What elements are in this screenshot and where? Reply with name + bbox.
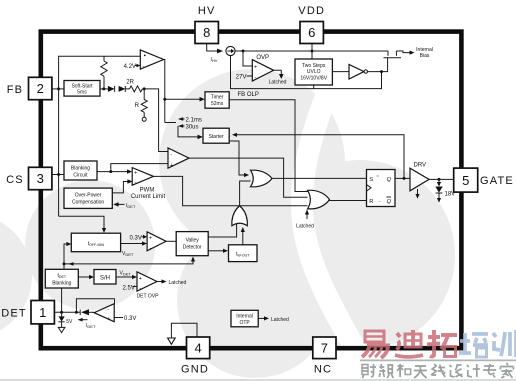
node FB junction bbox=[57, 87, 60, 90]
svg-text:27V: 27V bbox=[236, 74, 247, 80]
svg-text:Blanking: Blanking bbox=[71, 165, 90, 171]
arrow below DRV bbox=[415, 189, 419, 199]
block Internal OTP bbox=[231, 310, 258, 327]
svg-text:IHV: IHV bbox=[211, 57, 218, 63]
wire UVLO bottom stub bbox=[313, 85, 315, 89]
svg-text:...: ... bbox=[378, 198, 382, 203]
node zener junction bbox=[60, 311, 63, 314]
pin 8 (HV) bbox=[195, 22, 218, 44]
node buffer output junction bbox=[380, 70, 383, 73]
svg-text:HV: HV bbox=[198, 5, 216, 17]
svg-text:Bias: Bias bbox=[420, 53, 430, 59]
wire Blanking output to PWM comparator plus bbox=[97, 169, 132, 173]
watermark char tuo (red) bbox=[427, 330, 457, 357]
label 2.1ms with arrow bbox=[178, 117, 202, 123]
buffer U-bias (inverter) bbox=[349, 64, 367, 79]
svg-text:+: + bbox=[149, 236, 152, 242]
current source IHV (circle with arrow) bbox=[226, 46, 235, 55]
label PWM Current Limit bbox=[131, 188, 166, 201]
wire Latched into OR2 with arrow bbox=[305, 210, 309, 220]
svg-text:Over-Power: Over-Power bbox=[75, 193, 102, 199]
char he bbox=[397, 364, 411, 377]
svg-text:4: 4 bbox=[194, 340, 201, 355]
wire VDD rail bbox=[235, 50, 388, 52]
wire blanking node to gate comparator plus bbox=[111, 164, 168, 172]
wire Valley Detector to tW-OUT with arrow bbox=[208, 249, 228, 253]
watermark char xun (blue) bbox=[493, 330, 516, 357]
node gate zener junction bbox=[438, 178, 441, 181]
svg-text:3: 3 bbox=[37, 171, 44, 186]
svg-text:Latched: Latched bbox=[296, 223, 314, 229]
svg-text:+: + bbox=[254, 64, 257, 70]
char jia bbox=[500, 363, 513, 378]
svg-text:30us: 30us bbox=[186, 124, 199, 130]
svg-text:GATE: GATE bbox=[480, 175, 514, 187]
char ji bbox=[467, 364, 480, 377]
svg-text:5: 5 bbox=[462, 173, 469, 188]
node soft-start/resistor junction bbox=[102, 87, 105, 90]
op-amp OVP comparator bbox=[252, 60, 273, 81]
block S/H bbox=[94, 270, 116, 285]
wire OR3 output to OR1 bottom input bbox=[240, 181, 251, 208]
pin 4 (GND) bbox=[187, 337, 210, 359]
wire left input into tOFF with arrow bbox=[64, 242, 71, 264]
svg-text:2: 2 bbox=[37, 81, 44, 96]
op-amp FB OLP comparator (4.2V) bbox=[140, 50, 163, 69]
svg-text:6: 6 bbox=[308, 25, 315, 40]
svg-text:-: - bbox=[150, 245, 152, 251]
svg-text:R: R bbox=[369, 199, 373, 205]
diode DET (points left) bbox=[80, 309, 94, 315]
svg-text:7: 7 bbox=[321, 340, 328, 355]
svg-text:-: - bbox=[170, 152, 172, 158]
svg-text:Timer: Timer bbox=[211, 95, 224, 101]
wire 2.5V to DET OVP minus bbox=[133, 286, 138, 288]
svg-text:Internal: Internal bbox=[416, 47, 433, 53]
op-amp gate PWM comparator bbox=[168, 148, 189, 169]
wire buffer output to switch gate bbox=[368, 58, 388, 72]
svg-text:FB: FB bbox=[7, 84, 23, 96]
char she2 bbox=[450, 365, 463, 377]
svg-text:16V/10V/8V: 16V/10V/8V bbox=[300, 76, 327, 82]
node CS junction bbox=[57, 173, 60, 176]
svg-text:+: + bbox=[107, 317, 110, 323]
wire IDET comparator feedback loop bbox=[76, 299, 114, 313]
op-amp DET OVP comparator bbox=[137, 272, 157, 292]
node Q feedback junction bbox=[403, 177, 406, 180]
svg-text:Detector: Detector bbox=[183, 245, 202, 251]
svg-text:1: 1 bbox=[39, 305, 46, 320]
wire OR1 output to latch S bbox=[272, 177, 367, 179]
block tDET Blanking bbox=[45, 269, 78, 288]
watermark char yi (red) bbox=[362, 331, 388, 358]
svg-text:52ms: 52ms bbox=[211, 101, 224, 107]
svg-text:-: - bbox=[108, 306, 110, 312]
block tOFF-MIN bbox=[71, 233, 120, 252]
char pin bbox=[379, 364, 393, 378]
watermark underline bbox=[360, 359, 516, 361]
svg-text:DET: DET bbox=[1, 307, 27, 319]
svg-text:-: - bbox=[135, 180, 137, 186]
wire FB OLP line from Timer to OR2 bbox=[229, 100, 307, 192]
node demag junction bbox=[63, 262, 66, 265]
wire PWM comparator output to OR2 bbox=[154, 176, 308, 205]
wire S/H to DET OVP plus with arrow bbox=[116, 275, 137, 279]
wire switch to Internal Bias bbox=[396, 51, 409, 53]
wire 0.3V arrow to valley comparator plus bbox=[142, 235, 148, 239]
svg-text:Latched: Latched bbox=[269, 80, 287, 86]
wire DRV output to GATE pin bbox=[429, 178, 454, 180]
zener 5V to ground bbox=[58, 312, 65, 332]
char xian bbox=[431, 364, 445, 377]
svg-text:GND: GND bbox=[181, 363, 209, 375]
op-amp valley comparator bbox=[147, 232, 166, 252]
svg-text:S/H: S/H bbox=[100, 275, 110, 281]
wire tDET Blanking to S/H with arrow bbox=[78, 275, 94, 279]
svg-text:Latched: Latched bbox=[169, 280, 187, 286]
wire blanking chain vertical bbox=[63, 264, 65, 269]
svg-text:VDD: VDD bbox=[298, 5, 325, 17]
block Blanking Circuit bbox=[64, 161, 97, 180]
wire OR2 output to latch R bbox=[330, 200, 367, 202]
pin 1 (DET) bbox=[31, 301, 54, 324]
watermark char di (red) bbox=[395, 330, 423, 357]
or-gate OR1 bbox=[251, 170, 273, 187]
wire elbow under OLP output bbox=[165, 122, 176, 124]
pin 7 (NC) bbox=[313, 337, 336, 359]
node OLP output to timer junction bbox=[163, 98, 166, 101]
pin 2 (FB) bbox=[29, 77, 52, 99]
svg-text:8: 8 bbox=[203, 25, 210, 40]
block tW-OUT bbox=[229, 245, 258, 262]
wire OLP comparator output down bbox=[164, 60, 165, 123]
svg-text:Two Steps: Two Steps bbox=[302, 63, 326, 69]
svg-text:S: S bbox=[369, 177, 373, 183]
pin 3 (CS) bbox=[29, 167, 52, 189]
wire to Timer with arrow bbox=[165, 97, 205, 102]
wire Over-Power to PWM comparator minus bbox=[112, 179, 132, 193]
wire to Starter with arrow bbox=[178, 126, 203, 139]
node junction on VDD rail (pin 6) bbox=[311, 50, 314, 53]
flip-flop SR latch U-latch bbox=[367, 170, 396, 207]
wire HV pin to current source bbox=[207, 44, 217, 52]
char she bbox=[362, 364, 376, 378]
IC boundary frame bbox=[41, 32, 462, 349]
svg-text:VDET: VDET bbox=[120, 270, 132, 276]
svg-text:+: + bbox=[170, 163, 173, 169]
svg-text:IDET: IDET bbox=[86, 323, 96, 329]
svg-text:IDET: IDET bbox=[126, 203, 136, 209]
resistor R (vertical) bbox=[141, 89, 147, 117]
wire 0.3V to IDET comparator bbox=[114, 317, 123, 319]
op-amp PWM current limit comparator bbox=[132, 168, 153, 186]
diode D1 bbox=[108, 86, 115, 92]
zener 18V to ground bbox=[436, 179, 443, 202]
svg-text:DET OVP: DET OVP bbox=[137, 293, 160, 299]
wire CS chain down to tOFF box top with arrow bbox=[59, 216, 107, 233]
wire DET OVP output to Latched bbox=[157, 279, 167, 283]
svg-text:Circuit: Circuit bbox=[73, 172, 88, 178]
svg-text:Starter: Starter bbox=[209, 134, 224, 140]
watermark gray tagline row bbox=[362, 363, 513, 378]
wire valley detector top to OR3 left input bbox=[208, 224, 236, 238]
node junction on VDD rail (OVP tap) bbox=[242, 50, 245, 53]
svg-text:Q: Q bbox=[387, 177, 392, 183]
or-gate OR2 bbox=[308, 190, 330, 209]
svg-text:0.3V: 0.3V bbox=[130, 235, 142, 241]
resistor 2R (horizontal) bbox=[125, 86, 144, 92]
or-gate OR3 (vertical) bbox=[232, 206, 247, 226]
wire 4.2V arrow to comparator bbox=[135, 64, 141, 68]
svg-text:NC: NC bbox=[314, 363, 332, 375]
svg-text:2.1ms: 2.1ms bbox=[186, 117, 202, 123]
wire tOFF output to valley comparator bbox=[121, 241, 147, 245]
svg-text:Q: Q bbox=[387, 199, 392, 205]
wire UVLO to buffer bbox=[332, 71, 349, 73]
svg-text:OVP: OVP bbox=[256, 55, 269, 61]
wire Soft-Start output bbox=[100, 88, 108, 90]
node divider junction bbox=[143, 87, 146, 90]
wire tW-OUT to OR3 right input with arrow bbox=[241, 227, 245, 245]
wire 27V to OVP - input bbox=[247, 75, 253, 77]
block Two Steps UVLO bbox=[295, 59, 332, 85]
driver DRV bbox=[410, 168, 429, 191]
svg-text:+: + bbox=[139, 276, 142, 282]
svg-text:OTP: OTP bbox=[239, 320, 250, 326]
wire gate comparator output to OR2 bbox=[189, 158, 308, 197]
svg-text:5V: 5V bbox=[66, 319, 73, 325]
pin 5 (GATE) bbox=[454, 168, 478, 192]
wire pin6 down to UVLO bbox=[311, 44, 313, 60]
svg-text:PWM: PWM bbox=[140, 188, 155, 194]
terminal circle under R bbox=[142, 117, 146, 121]
wire CS pin to Blanking Circuit bbox=[52, 174, 64, 176]
svg-text:5ms: 5ms bbox=[77, 90, 87, 96]
wire FB sense vertical (FB node to comparator and down to CS chain) bbox=[59, 56, 141, 216]
block Over-Power Compensation bbox=[64, 188, 112, 208]
label 30us with arrow bbox=[178, 124, 199, 130]
wire OVP output to Latched bbox=[274, 70, 282, 74]
svg-text:Internal: Internal bbox=[236, 313, 253, 319]
node IDET junction bbox=[75, 311, 78, 314]
pin 6 (VDD) bbox=[300, 22, 323, 44]
svg-text:Blanking: Blanking bbox=[52, 281, 71, 287]
wire blanking down to DET line bbox=[61, 288, 63, 312]
watermark char pei (blue) bbox=[459, 333, 488, 357]
label Internal Bias bbox=[416, 47, 433, 59]
svg-text:R: R bbox=[135, 103, 140, 109]
diode D2 bbox=[119, 86, 126, 92]
svg-text:DRV: DRV bbox=[414, 162, 427, 168]
svg-text:FB OLP: FB OLP bbox=[238, 92, 259, 98]
svg-text:-: - bbox=[139, 286, 141, 292]
svg-text:4.2V: 4.2V bbox=[124, 64, 136, 70]
char tian bbox=[414, 366, 427, 378]
svg-text:0.3V: 0.3V bbox=[124, 316, 136, 322]
svg-text:UVLO: UVLO bbox=[307, 69, 321, 75]
svg-text:Latched: Latched bbox=[271, 317, 289, 323]
svg-text:+: + bbox=[134, 171, 137, 177]
svg-text:2R: 2R bbox=[126, 79, 134, 85]
block Valley Detector bbox=[176, 232, 208, 256]
wire FB pin to Soft-Start bbox=[52, 88, 64, 90]
block Starter bbox=[203, 128, 229, 143]
block Soft-Start 5ms bbox=[64, 81, 100, 97]
wire divider to PWM comparator minus bbox=[144, 89, 168, 152]
switch internal-bias (MOS style) bbox=[384, 51, 402, 58]
svg-text:Compensation: Compensation bbox=[72, 200, 104, 206]
svg-text:Valley: Valley bbox=[186, 238, 200, 244]
svg-text:''': ''' bbox=[377, 175, 380, 180]
wire Starter to OR1 top input bbox=[229, 141, 249, 177]
node blanking junction bbox=[109, 170, 112, 173]
wire long demag line to valley detector bottom bbox=[64, 257, 195, 266]
wire DET pin line bbox=[54, 311, 80, 313]
wire latch Q to DRV bbox=[395, 177, 410, 179]
wire valley comparator to Valley Detector bbox=[166, 240, 176, 242]
wire startup rail from IHV to buffer node bbox=[231, 56, 382, 89]
wire Q feedback to Starter bbox=[232, 133, 404, 179]
op-amp IDET comparator (points left) bbox=[94, 304, 114, 323]
svg-text:Current Limit: Current Limit bbox=[131, 194, 166, 200]
label IDET with arrow bbox=[78, 318, 96, 329]
block Timer 52ms bbox=[205, 92, 229, 108]
wire IDET into Over-Power with arrow bbox=[113, 202, 124, 206]
char zhuan bbox=[483, 364, 496, 378]
resistor pull-up (vertical) bbox=[101, 56, 107, 89]
wire OVP + input bbox=[243, 51, 252, 66]
svg-text:-: - bbox=[255, 75, 257, 81]
ground hook at pin 4 bbox=[168, 323, 197, 344]
svg-text:CS: CS bbox=[6, 174, 24, 186]
svg-text:VDET: VDET bbox=[122, 251, 134, 257]
wire OTP to Latched with arrow bbox=[258, 316, 269, 320]
